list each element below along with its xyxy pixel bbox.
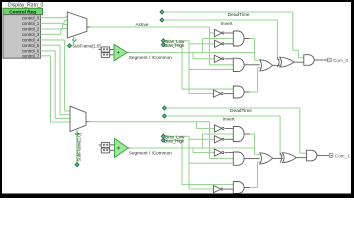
svg-text:Bias_High: Bias_High xyxy=(164,138,185,143)
label Com_0 xyxy=(333,58,349,63)
or-gate U24 (bottom) xyxy=(260,153,273,164)
buffer U16 Segment/!Common (bottom) xyxy=(115,138,129,157)
inverter U18 (bottom) xyxy=(215,136,225,143)
svg-text:Bias_High: Bias_High xyxy=(164,43,185,48)
label Bias_Low (bottom) xyxy=(165,134,185,139)
node Invert (top) xyxy=(160,18,164,22)
wire U14 output to Com_0 xyxy=(314,59,327,61)
wire U12 output xyxy=(273,64,281,66)
concat block U15 (bottom) xyxy=(99,142,114,153)
svg-text:Com_0: Com_0 xyxy=(333,58,349,63)
and-gate U11 (top) xyxy=(233,86,244,98)
or-gate U12 (top) xyxy=(260,60,273,71)
node Bias_High (top) xyxy=(161,43,165,47)
wire U22 output xyxy=(224,188,233,190)
svg-text:Display_Ram_0: Display_Ram_0 xyxy=(8,3,44,9)
node DeadTime (bottom) xyxy=(163,106,167,110)
wire control_1 to mux U1 input xyxy=(41,21,68,24)
concat block U3 (top) xyxy=(99,47,114,57)
node Bias_High (bottom) xyxy=(161,138,165,142)
wire U10 output xyxy=(224,93,233,95)
inverter U10 (top) xyxy=(214,90,224,97)
label Segment / !Common (top) xyxy=(129,55,172,60)
wire U20 output xyxy=(225,152,233,154)
label Bias_Low (top) xyxy=(165,39,185,44)
inverter U20 (bottom) xyxy=(214,149,224,156)
xor-gate U25 (bottom) xyxy=(280,153,296,163)
wire net Invert (top) xyxy=(164,20,282,60)
label Bias_High (bottom) xyxy=(164,138,185,143)
node SubFrame[1:0] (top) xyxy=(68,44,101,49)
wire net Active (U1 output) xyxy=(87,26,210,28)
label Bias_High (top) xyxy=(164,43,185,48)
wire U19 output xyxy=(244,134,261,155)
inverter U8 (top) xyxy=(214,55,224,62)
svg-text:control_5: control_5 xyxy=(22,43,40,48)
wire control_7 to mux U2 input xyxy=(41,56,71,122)
wire U24 output xyxy=(273,157,283,159)
wire U9 output xyxy=(244,64,259,66)
label Invert (top) xyxy=(221,21,234,27)
and-gate U19 (bottom) xyxy=(233,127,244,142)
wire U13 output xyxy=(294,61,304,63)
wire control_0 to mux U1 input xyxy=(41,17,68,18)
wire control_2 to mux U1 input xyxy=(41,25,68,30)
inverter U6 (top) xyxy=(215,40,225,47)
wire U25 output xyxy=(296,157,306,159)
svg-text:control_3: control_3 xyxy=(22,32,40,37)
node Bias_Low (bottom) xyxy=(161,134,165,138)
and-gate U21 (bottom) xyxy=(233,152,244,165)
wire control_4 to mux U2 input xyxy=(41,40,71,111)
wire net Bias_High (top) xyxy=(165,45,233,89)
wire U7 output xyxy=(244,39,261,61)
wire control_6 to mux U2 input xyxy=(41,51,71,119)
node Invert (bottom) xyxy=(163,114,167,118)
mux U2 (4:1 frame mux) xyxy=(70,106,86,135)
svg-text:Invert: Invert xyxy=(223,116,236,122)
label Segment / !Common (bottom) xyxy=(129,150,172,155)
inverter U5 (top) xyxy=(215,29,225,36)
and-gate U14 (top) xyxy=(304,55,314,66)
output pin Com_1 xyxy=(329,154,333,158)
label Invert (bottom) xyxy=(223,116,236,122)
wire U1 select xyxy=(73,37,75,45)
wire net Bias_Low (top) xyxy=(165,41,233,94)
register block Control Reg (control_0..control_7) xyxy=(3,8,43,58)
wire control_3 to mux U1 input xyxy=(41,29,68,35)
wire U2 select xyxy=(76,130,78,163)
svg-text:Control Reg: Control Reg xyxy=(9,9,36,14)
wire U2-output to gates (bottom) xyxy=(197,122,234,159)
output pin Com_0 xyxy=(328,58,332,62)
wire U8 output xyxy=(225,58,233,60)
wire net Bias_Low (bottom) xyxy=(165,136,233,189)
inverter U22 (bottom) xyxy=(214,186,224,193)
svg-text:SubFrame[1:0]: SubFrame[1:0] xyxy=(76,133,81,161)
wire control_5 to mux U2 input xyxy=(41,45,71,115)
wire net Bias_High (bottom) xyxy=(165,140,233,184)
and-gate U7 (top) xyxy=(233,31,244,46)
wire Active to gates (top) xyxy=(210,27,234,65)
buffer U4 Segment/!Common (top) xyxy=(114,44,127,60)
wire U17/U18 outputs xyxy=(225,129,233,140)
svg-text:Active: Active xyxy=(136,22,149,28)
svg-text:control_1: control_1 xyxy=(22,21,40,26)
svg-text:Com_1: Com_1 xyxy=(335,153,351,158)
label DeadTime (bottom) xyxy=(230,108,252,114)
and-gate U23 (bottom) xyxy=(233,182,244,194)
wire U21 output xyxy=(244,158,259,160)
wire U11 output xyxy=(244,68,261,92)
and-gate U26 (bottom) xyxy=(307,150,317,161)
wire U2 output xyxy=(86,121,210,123)
svg-text:Segment / !Common: Segment / !Common xyxy=(129,150,172,155)
label Com_1 xyxy=(335,153,351,158)
label Active xyxy=(136,22,149,28)
node DeadTime (top) xyxy=(160,10,164,14)
wire U5/U6 outputs xyxy=(225,33,233,44)
node SubFrame[1:0] (bottom) xyxy=(75,133,81,167)
svg-text:SubFrame[1:0]: SubFrame[1:0] xyxy=(72,44,100,49)
svg-text:control_2: control_2 xyxy=(22,27,40,32)
svg-text:DeadTime: DeadTime xyxy=(230,108,252,114)
and-gate U9 (top) xyxy=(233,58,244,71)
xor-gate U13 (top) xyxy=(277,57,294,67)
wire net Segment (bottom) xyxy=(128,134,254,153)
block title Display_Ram_0 xyxy=(8,3,44,9)
svg-text:Invert: Invert xyxy=(221,21,234,27)
wire net Segment (top) xyxy=(127,39,254,59)
wire U26 output to Com_1 xyxy=(317,155,329,157)
svg-text:control_0: control_0 xyxy=(22,15,40,20)
mux U1 (4:1 frame mux) xyxy=(67,12,87,42)
node Bias_Low (top) xyxy=(161,39,165,43)
wire net DeadTime (bottom) xyxy=(166,108,306,153)
wire U23 output xyxy=(244,162,261,188)
wire net DeadTime (top) xyxy=(164,12,304,58)
label DeadTime (top) xyxy=(228,12,250,18)
inverter U17 (bottom) xyxy=(215,125,225,132)
svg-text:Segment / !Common: Segment / !Common xyxy=(129,55,172,60)
svg-text:DeadTime: DeadTime xyxy=(228,12,250,18)
svg-text:control_7: control_7 xyxy=(22,53,40,58)
wire net Invert (bottom) xyxy=(166,116,284,155)
svg-text:control_4: control_4 xyxy=(22,38,40,43)
